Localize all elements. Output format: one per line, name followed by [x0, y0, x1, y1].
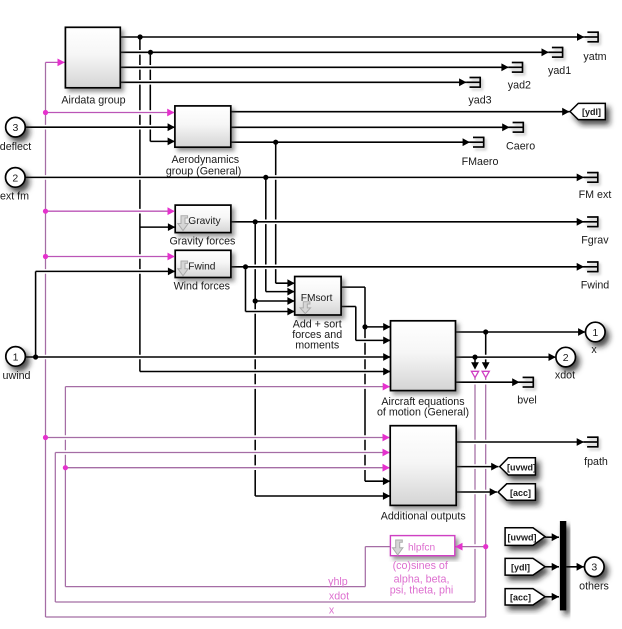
terminator yad2 [509, 62, 523, 73]
svg-text:[uvwd]: [uvwd] [508, 532, 537, 542]
svg-text:[ydl]: [ydl] [511, 563, 530, 573]
wire fwind out [233, 264, 581, 269]
node x-aero branch [43, 110, 48, 115]
terminator fpath [584, 436, 598, 447]
subsystem Add + sort forces and moments (FMsort) [295, 277, 341, 316]
node airdata out1 branch [138, 34, 143, 39]
wire yhlp to addl [68, 465, 387, 470]
wire uwind riser [35, 271, 37, 357]
node x out branch [483, 329, 488, 334]
inport 3 deflect [6, 117, 26, 137]
terminator yatm [584, 31, 598, 42]
wire gravity out [233, 220, 581, 225]
subsystem Wind forces [175, 250, 231, 277]
svg-text:Wind forces: Wind forces [174, 280, 230, 292]
arrow into aero in1 [167, 109, 174, 117]
wire fmsort in2 [268, 289, 292, 294]
svg-text:3: 3 [13, 122, 19, 134]
svg-text:1: 1 [13, 351, 19, 363]
arrow into fmsort in4 [287, 308, 294, 316]
node x-addl branch [43, 435, 48, 440]
arrow into yad2 [501, 63, 508, 71]
wire fmsort in4 [248, 309, 292, 314]
svg-text:Fgrav: Fgrav [581, 235, 609, 247]
svg-text:x: x [591, 344, 597, 356]
terminator Fwind [584, 261, 598, 272]
svg-text:xdot: xdot [555, 369, 575, 381]
svg-text:(co)sines of: (co)sines of [393, 560, 448, 572]
wire xdot bottom [58, 600, 473, 605]
arrow into outport others [577, 563, 584, 571]
svg-text:3: 3 [591, 562, 597, 574]
svg-text:group (General): group (General) [166, 165, 241, 177]
node fwind out branch [243, 264, 248, 269]
wire ydl [233, 109, 567, 114]
svg-text:xdot: xdot [329, 591, 349, 603]
wire x bottom [48, 615, 483, 620]
wire xdot riser right [474, 378, 476, 603]
svg-text:others: others [579, 581, 609, 593]
arrow into airdata [58, 59, 65, 67]
wire xdot to addl [58, 450, 388, 455]
node fmsort in3 branch [253, 298, 258, 303]
wire x to hlpfcn [458, 544, 484, 549]
arrow into aeom in2 [383, 337, 390, 345]
wire aeom in2 [358, 338, 388, 343]
arrow into addl in1 [383, 434, 390, 442]
node xdot out branch [472, 355, 477, 360]
icon fmsort arrow [300, 302, 310, 314]
svg-text:FMaero: FMaero [462, 156, 499, 168]
wire fmsort in1 [278, 281, 292, 286]
svg-text:Gravity: Gravity [188, 216, 221, 227]
node uwind branch [33, 354, 38, 359]
icon gravity arrow [178, 216, 188, 231]
svg-text:psi, theta, phi: psi, theta, phi [390, 585, 454, 597]
wire xdot riser left [54, 453, 56, 603]
arrow into yad1 [542, 48, 549, 56]
svg-text:[acc]: [acc] [510, 488, 531, 498]
svg-text:yhlp: yhlp [328, 576, 348, 588]
arrow into aeom in3 [383, 353, 390, 361]
arrow into aeom in1 [383, 323, 390, 331]
arrow into ydl tag [562, 108, 569, 116]
svg-text:Caero: Caero [506, 141, 535, 153]
node airdata out2 branch [148, 50, 153, 55]
wire fmsort out1 [344, 285, 363, 290]
wire yatm [123, 35, 582, 40]
wire deflect to aero [28, 125, 173, 130]
wire ext fm [28, 175, 582, 180]
wire from ydl to mux [548, 564, 557, 569]
arrow into fmsort in1 [287, 279, 294, 287]
svg-text:yatm: yatm [583, 51, 606, 63]
wire fpath out [459, 440, 582, 445]
subsystem Gravity forces [175, 205, 231, 233]
wire x tap stub [485, 332, 487, 364]
arrow into fmsort in3 [287, 297, 294, 305]
wire aeom in4 [142, 369, 388, 374]
wire x to airdata [48, 60, 62, 65]
svg-text:yad1: yad1 [548, 65, 571, 77]
arrow into aero in2 [168, 123, 175, 131]
wire aeom in1 [368, 325, 389, 330]
wire gravity out riser [254, 222, 256, 496]
node x line start marker [482, 371, 489, 377]
svg-text:uwind: uwind [3, 370, 31, 382]
inport 1 uwind [6, 347, 26, 367]
terminator yad1 [549, 47, 563, 58]
icon fwind arrow [178, 261, 188, 276]
wire aero in3 [153, 139, 173, 144]
wire yad1 [123, 50, 547, 55]
arrow into gravity in1 [168, 207, 175, 215]
svg-text:yad3: yad3 [468, 94, 491, 106]
wire fwind out riser [245, 267, 247, 312]
wire fmsort out2 riser [355, 307, 357, 341]
node x-gravity branch [43, 209, 48, 214]
subsystem hlpfcn [390, 536, 454, 556]
wire yhlp bottom [68, 584, 363, 589]
arrow into outport xdot [549, 353, 556, 361]
wire fmsort out2 [344, 304, 354, 309]
svg-text:yad2: yad2 [508, 80, 531, 92]
terminator FM ext [584, 172, 598, 183]
arrow into addl in2 [383, 449, 390, 457]
wire mux to port3 [569, 564, 582, 569]
arrow xdot tap down [471, 362, 479, 369]
goto tag [uvwd] [500, 458, 536, 475]
node ext fm branch [263, 175, 268, 180]
icon hlpfcn arrow [393, 540, 403, 555]
arrow into mux 3 [552, 593, 559, 601]
outport 3 others [585, 557, 605, 577]
wire uwind [27, 355, 388, 360]
node x-fwind branch [43, 254, 48, 259]
arrow into mux 2 [552, 563, 559, 571]
node aero fm branch [273, 140, 278, 145]
wire from uvwd to mux [548, 535, 557, 540]
subsystem Additional outputs [390, 426, 456, 506]
svg-text:FMsort: FMsort [301, 293, 333, 304]
arrow into outport x [578, 328, 585, 336]
node x-hlpfcn branch [483, 544, 488, 549]
from tag [uvwd] [505, 528, 545, 546]
svg-text:moments: moments [295, 340, 339, 352]
wire xdot tap stub [474, 357, 476, 363]
wire aero FM out [233, 140, 467, 145]
arrow x tap down [482, 362, 490, 369]
arrow into aeom in5 [383, 383, 390, 391]
arrow into addl in5 [383, 492, 390, 500]
subsystem Aerodynamics group (General) [175, 106, 231, 147]
wire airdata out2 riser [149, 52, 151, 141]
arrow into acc goto [490, 488, 497, 496]
wire aero to Caero [233, 125, 507, 130]
wire addl in4 [368, 479, 388, 484]
wire ext fm riser [265, 177, 267, 291]
wire fwind in2 [38, 269, 173, 274]
svg-text:of motion (General): of motion (General) [377, 406, 469, 418]
node yhlp-addl branch [63, 465, 68, 470]
arrow into uvwd goto [491, 463, 498, 471]
wire x to aero [48, 110, 172, 115]
svg-text:hlpfcn: hlpfcn [408, 543, 435, 554]
wire airdata out1 riser [139, 37, 141, 372]
arrow into mux 1 [552, 533, 559, 541]
wire gravity in2 [142, 225, 172, 230]
svg-text:Gravity forces: Gravity forces [169, 235, 235, 247]
wire bvel out [458, 380, 517, 385]
arrow into Fgrav [577, 218, 584, 226]
inport 2 ext fm [6, 168, 26, 188]
svg-text:[uvwd]: [uvwd] [507, 462, 536, 472]
svg-text:Fwind: Fwind [188, 261, 216, 272]
svg-text:[ydl]: [ydl] [582, 107, 601, 117]
goto tag [acc] [498, 484, 535, 500]
svg-text:deflect: deflect [0, 141, 31, 153]
svg-text:x: x [329, 605, 335, 617]
wire hlpfcn out [368, 544, 388, 549]
arrow into Fwind term [577, 263, 584, 271]
terminator Caero [510, 122, 524, 133]
wire x to fwind [48, 254, 171, 259]
svg-text:2: 2 [563, 352, 569, 364]
wire x riser right [485, 378, 487, 618]
arrow into FMaero [463, 138, 470, 146]
node xdot line start marker [471, 371, 478, 377]
arrow into aero in3 [168, 138, 175, 146]
node aeom in1 branch [362, 324, 367, 329]
subsystem Airdata group [65, 27, 120, 88]
wire yhlp riser left [64, 387, 66, 587]
arrow into bvel [512, 378, 519, 386]
svg-text:ext fm: ext fm [0, 191, 29, 203]
arrow into fwind in2 [168, 268, 175, 276]
wire x to gravity [48, 209, 171, 214]
arrow into fpath [577, 438, 584, 446]
arrow into FM ext [577, 174, 584, 182]
wire fmsort out1 riser [364, 287, 366, 481]
arrow into aeom in4 [383, 368, 390, 376]
from tag [acc] [505, 589, 545, 605]
wire x out [458, 330, 582, 335]
wire acc out [459, 490, 495, 495]
arrow into addl in3 [383, 464, 390, 472]
terminator bvel [520, 377, 534, 388]
arrow into yad3 [459, 78, 466, 86]
arrow into yatm [577, 33, 584, 41]
svg-text:2: 2 [12, 172, 18, 184]
wire fmsort in3 [258, 299, 293, 304]
terminator Fgrav [584, 216, 598, 227]
wire addl in5 [258, 494, 388, 499]
svg-text:Additional outputs: Additional outputs [381, 511, 466, 523]
arrow into hlpfcn [455, 543, 462, 551]
svg-text:[acc]: [acc] [510, 593, 531, 603]
svg-text:Aerodynamics: Aerodynamics [171, 154, 239, 166]
svg-text:1: 1 [592, 327, 598, 339]
wire yad3 [123, 80, 464, 85]
wire yhlp to aeom [68, 384, 388, 389]
wire xdot out [458, 355, 553, 360]
from tag [ydl] [505, 558, 545, 575]
wire x (feedback) riser left [45, 62, 47, 617]
arrow into Caero [502, 123, 509, 131]
svg-text:Airdata group: Airdata group [61, 95, 125, 107]
arrow into gravity in2 [168, 223, 175, 231]
terminator FMaero [470, 137, 484, 148]
arrow into addl in4 [383, 477, 390, 485]
node gravity out branch [253, 219, 258, 224]
wire hlpfcn output riser [364, 547, 366, 587]
svg-text:Fwind: Fwind [581, 280, 610, 292]
wire from acc to mux [548, 594, 557, 599]
outport 1 x [586, 322, 606, 342]
svg-text:bvel: bvel [517, 395, 537, 407]
wire yad2 [123, 65, 506, 70]
outport 2 xdot [556, 347, 576, 367]
goto tag [ydl] [570, 103, 605, 119]
wire x to addl [48, 435, 387, 440]
arrow into fmsort in2 [287, 288, 294, 296]
wire uvwd out [459, 464, 496, 469]
subsystem Aircraft equations of motion (General) [391, 321, 456, 391]
svg-text:fpath: fpath [584, 456, 608, 468]
arrow into fwind in1 [168, 253, 175, 261]
terminator yad3 [466, 77, 480, 88]
mux others [560, 521, 566, 610]
wire aero fm riser [275, 142, 277, 283]
svg-text:FM ext: FM ext [579, 189, 612, 201]
